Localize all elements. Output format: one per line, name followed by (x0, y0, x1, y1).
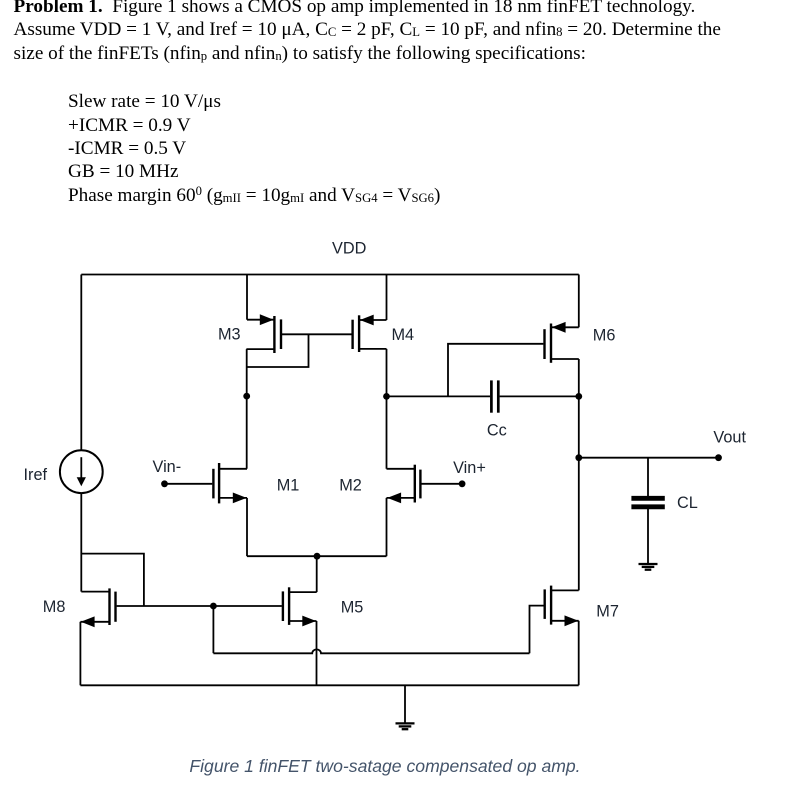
node tail junction (314, 553, 321, 560)
wire tail node (M1/M2 sources to M5 drain) (247, 555, 387, 557)
power rail VDD (81, 274, 579, 276)
ground (below CL) (639, 564, 658, 570)
transistor M3 (PMOS) (246, 316, 281, 353)
svg-text:Vin+: Vin+ (453, 459, 486, 477)
svg-text:Vout: Vout (713, 429, 746, 447)
wire M3 drain to M1 drain (246, 349, 248, 469)
node gate bus junction (210, 603, 217, 610)
wire M4 drain node to Cc left plate (387, 395, 491, 397)
Vin- terminal node (161, 480, 168, 487)
capacitor CL (631, 498, 664, 507)
wire Cc right plate to M6 drain (500, 395, 579, 397)
wire M8 diode connection (drain to gate bus) (81, 554, 144, 606)
specification list (68, 90, 440, 209)
node Cc right junction (575, 393, 582, 400)
wire M4 drain to M2 drain (386, 349, 388, 469)
wire VDD to Iref (80, 275, 82, 451)
wire gate bus to M7 (hop over M5 source) (213, 649, 529, 653)
svg-text:M6: M6 (593, 327, 616, 345)
ground rail (80, 684, 578, 686)
node output junction (575, 454, 582, 461)
svg-text:Vin-: Vin- (153, 458, 182, 476)
wire M2 gate to Vin+ terminal (421, 483, 462, 485)
wire ground rail to ground symbol (404, 685, 406, 723)
svg-text:Cc: Cc (487, 421, 507, 439)
svg-text:M5: M5 (341, 599, 364, 617)
node Vout terminal (715, 454, 722, 461)
wire gate bus down from junction (212, 606, 214, 653)
svg-text:M8: M8 (43, 598, 66, 616)
wire tail node to M5 drain (316, 556, 318, 592)
problem statement paragraph (14, 0, 721, 67)
wire VDD to M6 source (578, 275, 580, 328)
wire M7 source to ground rail (578, 621, 580, 686)
transistor M6 (PMOS) (545, 324, 579, 363)
wire Vin- terminal to M1 gate (165, 483, 213, 485)
svg-text:M2: M2 (339, 477, 362, 495)
wire output node to Vout terminal (579, 457, 719, 459)
transistor M1 (NMOS) (213, 463, 247, 503)
wire M1 source to tail node (246, 498, 248, 556)
transistor M5 (NMOS) (283, 587, 317, 625)
transistor M8 (NMOS) (80, 588, 115, 625)
svg-text:M1: M1 (277, 477, 300, 495)
svg-text:VDD: VDD (332, 240, 366, 258)
wire M6 drain to M7 drain (578, 359, 580, 590)
svg-text:CL: CL (677, 494, 698, 512)
wire CL bottom to ground (647, 509, 649, 564)
svg-text:M4: M4 (392, 326, 415, 344)
wire gate bus M8 to M5 (117, 605, 282, 607)
wire up to M7 gate (530, 606, 544, 654)
ground (main rail) (396, 723, 415, 729)
wire M5 source to ground rail (316, 621, 318, 685)
svg-text:Iref: Iref (24, 466, 48, 484)
current source Iref (60, 450, 103, 493)
svg-text:M7: M7 (596, 603, 619, 621)
wire VDD to M3 source (246, 275, 248, 320)
svg-text:M3: M3 (218, 326, 241, 344)
transistor M2 (NMOS) (387, 465, 421, 503)
wire CL top (647, 458, 649, 496)
wire M3 gate to M4 gate (282, 333, 352, 335)
transistor M7 (NMOS) (545, 586, 579, 625)
figure caption (0, 756, 770, 777)
Vin+ terminal node (459, 480, 466, 487)
wire Iref to M8 drain (80, 493, 82, 592)
node M4 drain junction (383, 393, 390, 400)
wire VDD to M4 source (386, 275, 388, 321)
wire M2 source to tail node (386, 498, 388, 556)
node M3 drain junction (243, 393, 250, 400)
wire M6 gate to first-stage output node (448, 344, 543, 397)
transistor M4 (PMOS) (353, 315, 387, 352)
capacitor Cc (491, 380, 498, 412)
wire M3 diode connection (gate to drain) (246, 334, 308, 367)
wire M8 source to ground rail (79, 622, 81, 686)
